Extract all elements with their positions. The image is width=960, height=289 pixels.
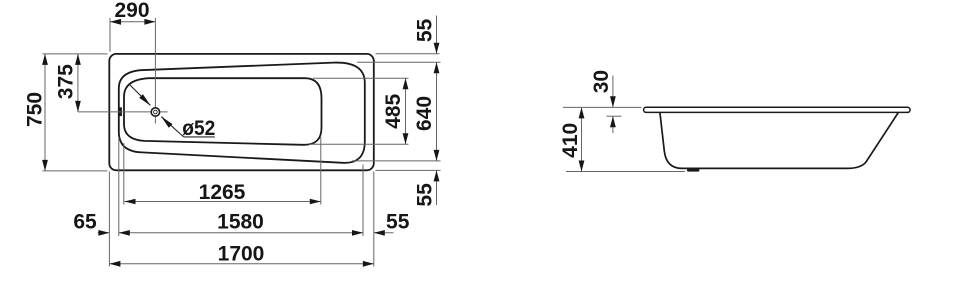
svg-text:30: 30 <box>590 70 613 93</box>
svg-text:1580: 1580 <box>217 211 264 234</box>
extension tick 30 bottom <box>607 115 622 117</box>
right-side extension lines <box>376 53 440 55</box>
svg-text:55: 55 <box>414 19 437 43</box>
extension line 750/375 top <box>43 53 108 55</box>
dimension 55 bottom right vertical <box>436 170 438 205</box>
side view: drain/foot stub <box>687 169 699 172</box>
top view: bathtub outer edge <box>109 54 374 170</box>
dimension 55 top right <box>436 16 438 54</box>
top view: basin floor outline <box>124 78 322 145</box>
svg-text:55: 55 <box>386 211 410 234</box>
svg-text:1265: 1265 <box>199 181 246 204</box>
svg-text:ø52: ø52 <box>182 117 215 140</box>
svg-text:375: 375 <box>54 64 77 99</box>
dimension 290 <box>110 21 155 23</box>
dimension 640 <box>436 62 438 161</box>
drain hole ø52 <box>151 108 159 116</box>
overflow hole mark <box>119 107 122 116</box>
extension line 290 right / drain vertical centerline <box>154 18 156 124</box>
dimension 1265 <box>125 201 321 203</box>
dimension 65 <box>98 232 110 234</box>
svg-text:640: 640 <box>413 96 436 131</box>
extension line 290 left <box>109 18 111 52</box>
svg-text:485: 485 <box>382 93 405 128</box>
leader line ø52 lower segment <box>161 117 183 137</box>
dimension 1700 <box>109 263 373 265</box>
leader line ø52 upper segment <box>129 84 150 105</box>
extension line 410/30 top <box>563 106 642 108</box>
extension line 375 bottom / drain horizontal centerline <box>78 111 168 113</box>
svg-text:410: 410 <box>559 123 582 158</box>
dimension 375 <box>77 54 79 112</box>
svg-text:290: 290 <box>114 0 149 22</box>
dimension 1580 <box>119 232 363 234</box>
dimension 55 bottom horizontal <box>374 232 394 234</box>
bottom extension lines <box>108 172 110 267</box>
extension line 410 bottom <box>566 171 685 173</box>
svg-text:750: 750 <box>24 92 47 127</box>
top view: tub rim inner edge <box>119 63 365 163</box>
dimension 30 <box>612 76 614 108</box>
svg-text:55: 55 <box>413 183 436 207</box>
side view: rim flange bar <box>644 107 911 112</box>
dimension 485 <box>405 78 407 144</box>
dimension 410 <box>581 107 583 171</box>
extension line 750 bottom <box>43 170 108 172</box>
side view: tub body profile <box>660 112 899 168</box>
svg-text:65: 65 <box>73 211 97 234</box>
dimension 750 <box>44 54 46 171</box>
svg-text:1700: 1700 <box>218 242 265 265</box>
